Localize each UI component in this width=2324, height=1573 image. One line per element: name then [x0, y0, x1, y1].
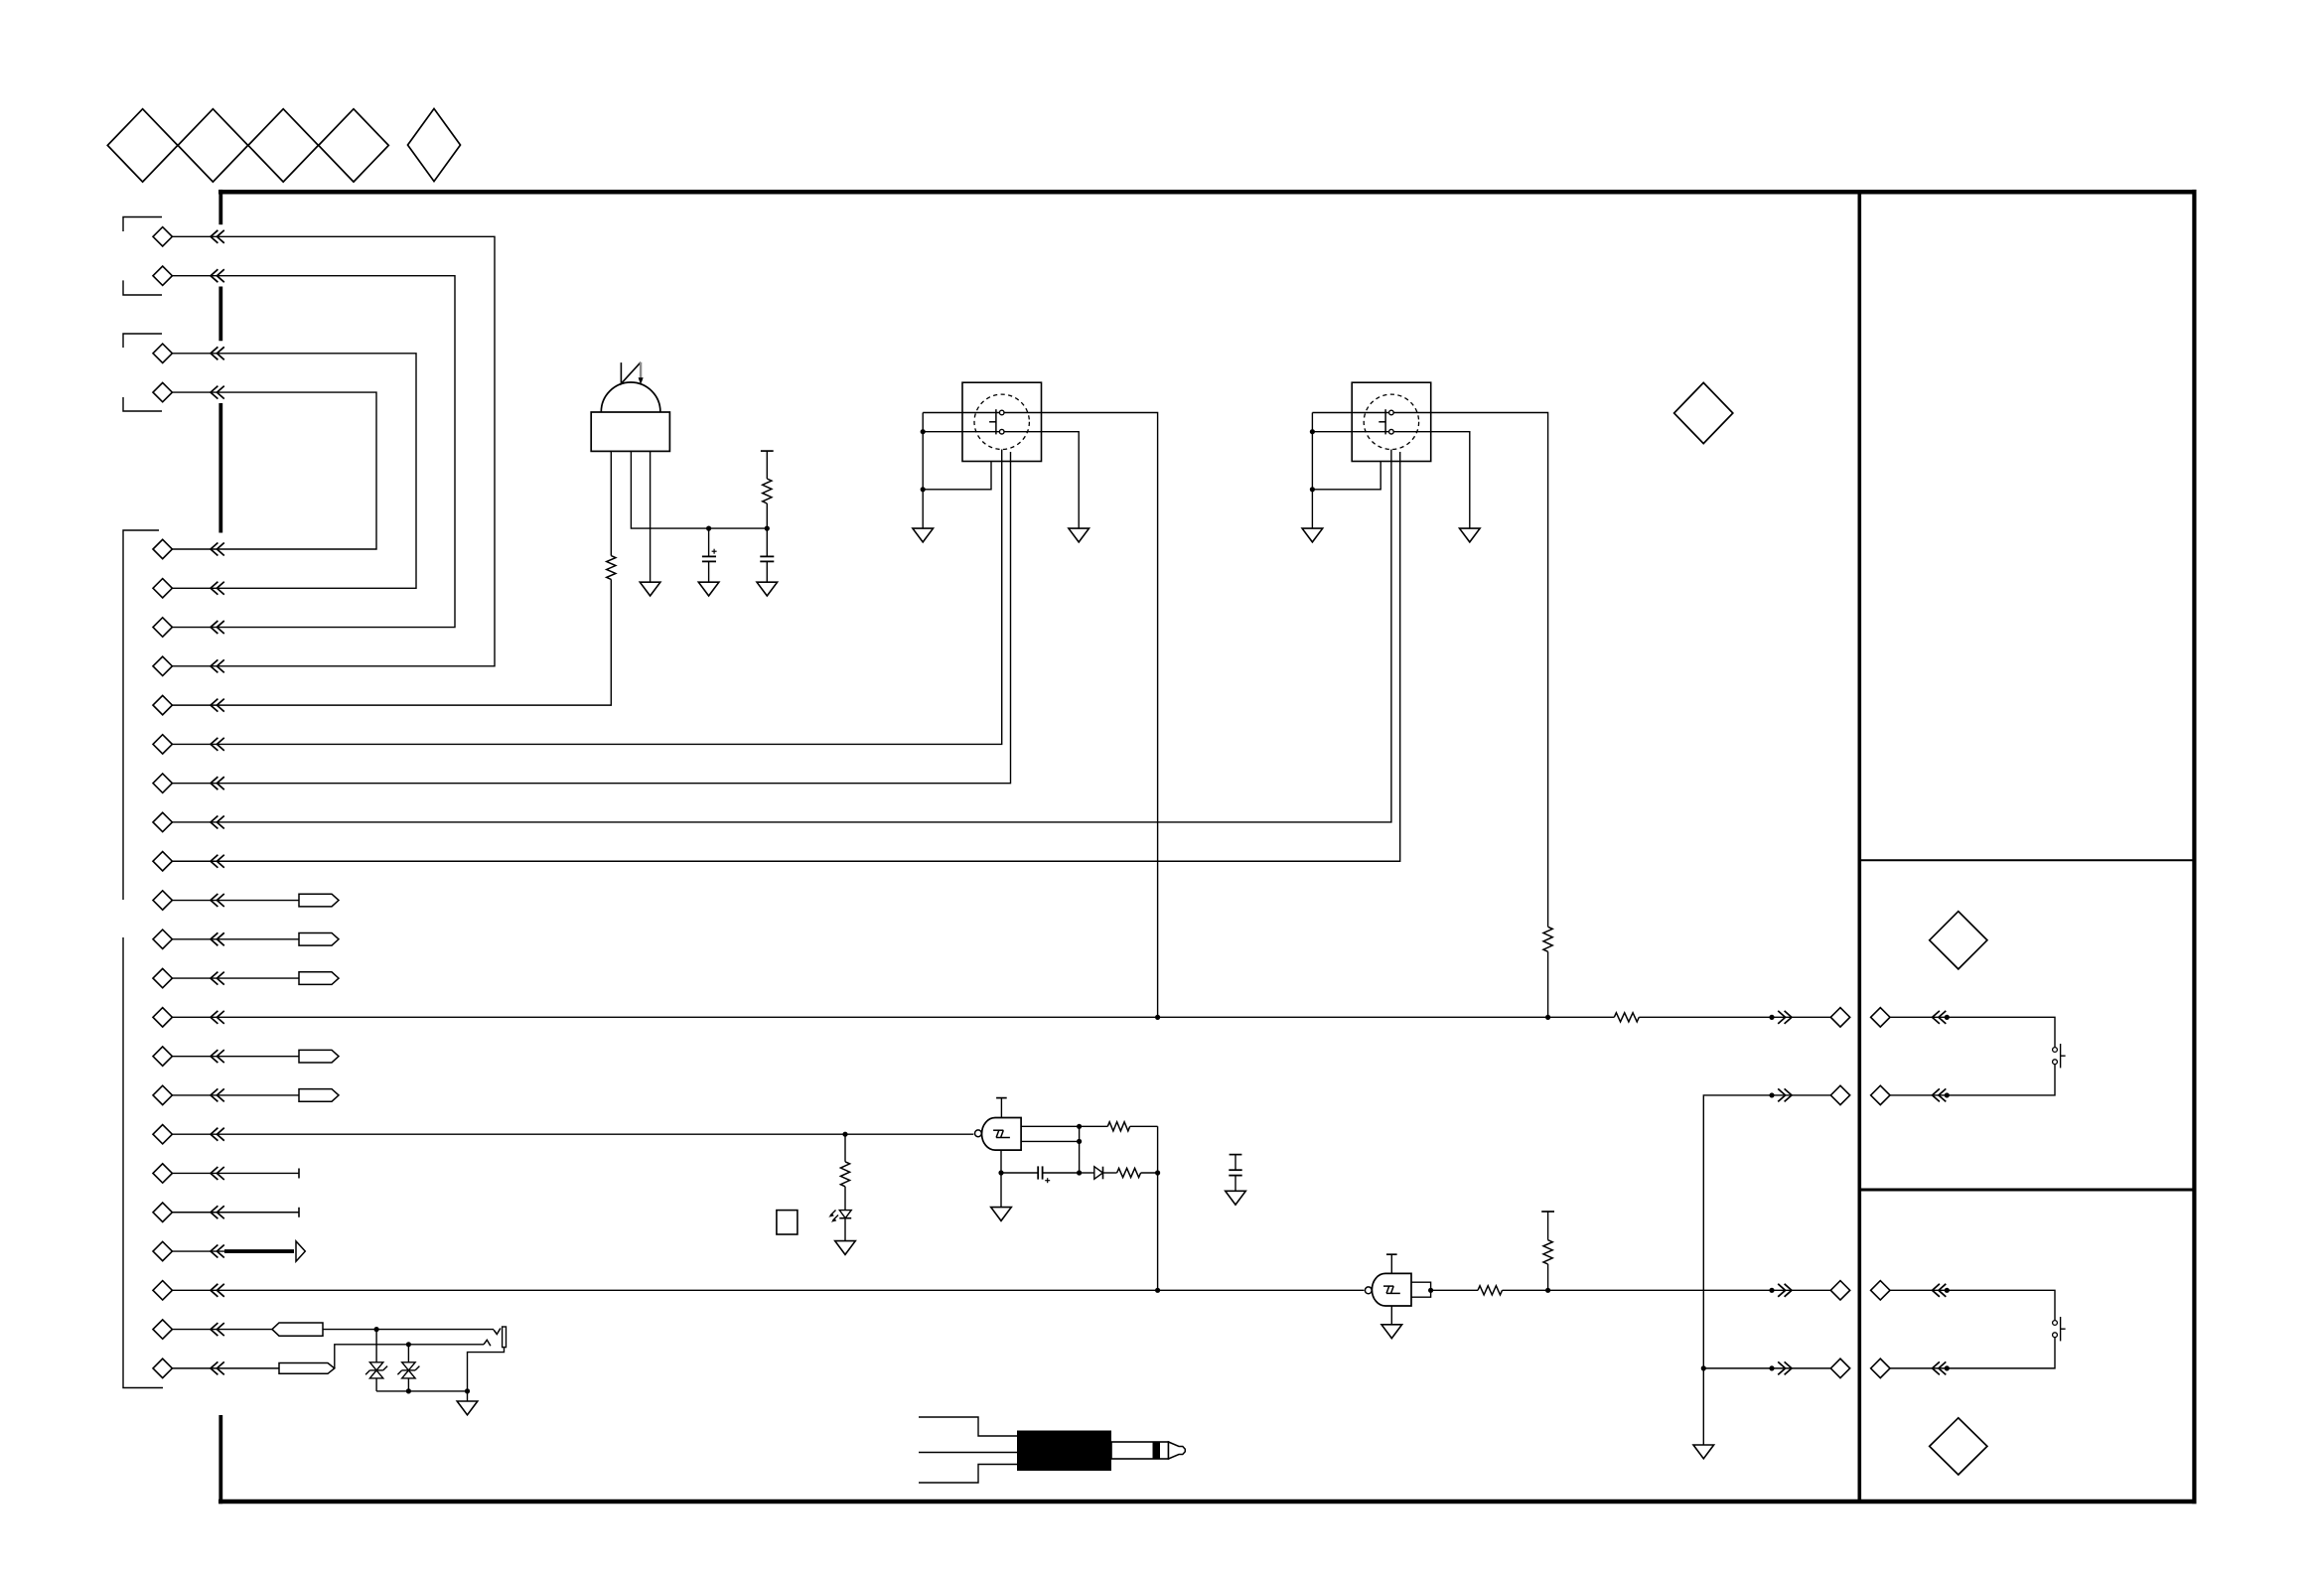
- TVS diode D3: [375, 1330, 377, 1362]
- ornament diamond D1: [107, 109, 178, 182]
- IR beam arrow: [621, 362, 641, 384]
- ground column: [1693, 1445, 1714, 1459]
- junction C1: [706, 526, 711, 531]
- resistor R8: [1478, 1286, 1503, 1295]
- ornament diamond D5: [408, 108, 461, 181]
- connector pin P18 diamond: [153, 1047, 172, 1066]
- switch SW2 bottom pin wire: [1312, 462, 1380, 490]
- signal marker triangle P23: [296, 1241, 305, 1261]
- wire SW1 pin4 to ground: [1004, 432, 1079, 528]
- logo box: [777, 1211, 798, 1234]
- ground U2A: [991, 1208, 1012, 1221]
- junction H4: [1769, 1365, 1774, 1370]
- sheet entry arrow P1: [211, 230, 218, 243]
- sheet entry arrow H4 panel: [1933, 1361, 1940, 1374]
- sheet entry arrow P15: [211, 932, 218, 945]
- sheet entry arrow P18: [211, 1050, 218, 1063]
- connector pin P26 diamond: [153, 1358, 172, 1377]
- gate U2A VCC pin: [1000, 1098, 1002, 1118]
- sheet border left segment 3: [218, 403, 222, 533]
- sheet exit arrow H2: [1778, 1088, 1785, 1101]
- gate U2A input stubs: [1021, 1125, 1080, 1127]
- ground SW2 right: [1460, 528, 1481, 542]
- wire SW2 pin4 to ground: [1393, 432, 1470, 528]
- resistor R4 feedback: [1080, 1125, 1108, 1127]
- junction H4 panel: [1945, 1365, 1950, 1370]
- resistor R1: [607, 556, 616, 580]
- wire P14: [172, 900, 299, 902]
- ground C4: [1226, 1191, 1246, 1205]
- wire row P17 main: [172, 1016, 1614, 1018]
- wire P21 stub: [172, 1172, 299, 1174]
- node diamond main area: [1674, 382, 1733, 443]
- gate U2B body: [1372, 1273, 1411, 1306]
- wire P26 to flag: [172, 1367, 279, 1369]
- right panel divider 2: [1859, 1189, 2194, 1192]
- junction ring wire / D4: [406, 1342, 411, 1347]
- connector pin P6 diamond: [153, 579, 172, 598]
- junction SW1 left a: [921, 429, 926, 434]
- right panel divider 1: [1859, 859, 2194, 861]
- connector pin P16 diamond: [153, 968, 172, 987]
- ground rail: [467, 1391, 469, 1401]
- sheet entry arrow P11: [211, 777, 218, 789]
- wire P16: [172, 977, 299, 979]
- sheet entry arrow P10: [211, 738, 218, 751]
- junction stub a: [1077, 1124, 1082, 1129]
- capacitor C3: [1001, 1172, 1038, 1174]
- wire loop P1-P8: [172, 236, 495, 666]
- connector bracket group 2: [123, 334, 162, 348]
- ground U1-3: [640, 582, 660, 596]
- sheet entry arrow P7: [211, 621, 218, 634]
- jack plug wire 1: [919, 1417, 1017, 1436]
- connector pin P7 diamond: [153, 618, 172, 637]
- switch SW2 contacts: [1389, 410, 1394, 415]
- gate U2B output bubble: [1365, 1287, 1372, 1294]
- ground SW2 left: [1302, 528, 1323, 542]
- resistor R9 pull-up: [1541, 1211, 1554, 1213]
- sheet entry arrow P9: [211, 699, 218, 712]
- sheet exit arrow H4: [1778, 1361, 1785, 1374]
- sheet entry arrow P6: [211, 582, 218, 595]
- connector pin P14 diamond: [153, 891, 172, 910]
- junction ground column / H4: [1701, 1365, 1706, 1370]
- sheet border bottom: [218, 1500, 2197, 1504]
- switch SW2 left pin wires: [1312, 412, 1388, 414]
- wire P9 to R1: [172, 579, 611, 705]
- sheet border right: [2192, 190, 2196, 1503]
- jack plug shaft: [1111, 1442, 1169, 1459]
- wire SW2 pin3 to R6: [1393, 413, 1547, 928]
- net flag P18: [299, 1050, 339, 1063]
- hier pin H4 right: [1871, 1358, 1890, 1377]
- wire SW1 pin3 to feedback column: [1004, 413, 1158, 1018]
- connector bracket group 4: [123, 937, 163, 1388]
- bus wire P23 bold: [224, 1249, 294, 1253]
- sheet entry arrow H3 panel: [1933, 1284, 1940, 1297]
- wire U2B input to R8: [1431, 1289, 1478, 1291]
- junction H3: [1769, 1288, 1774, 1293]
- wire feedback column: [1157, 1126, 1159, 1290]
- wire P10 to switch: [172, 450, 1001, 745]
- hier pin H1 right: [1871, 1008, 1890, 1027]
- connector pin P2 diamond: [153, 266, 172, 285]
- sheet entry arrow P13: [211, 855, 218, 868]
- resistor R7: [1614, 1013, 1639, 1022]
- wire loop P4-P5: [172, 392, 376, 549]
- hier pin H3 left: [1830, 1281, 1849, 1300]
- gate U2A schmitt glyph: [993, 1129, 1003, 1131]
- wire loop P2-P7: [172, 276, 455, 628]
- connector pin P20 diamond: [153, 1125, 172, 1144]
- junction H2: [1769, 1092, 1774, 1097]
- jack sleeve contact bar: [503, 1327, 507, 1348]
- sheet entry arrow P4: [211, 386, 218, 399]
- switch SW2 button circle: [1364, 394, 1418, 449]
- junction row P24 / feedback net: [1155, 1288, 1160, 1293]
- LED D1: [839, 1211, 851, 1218]
- sheet entry arrow P24: [211, 1284, 218, 1297]
- capacitor C2: [766, 528, 768, 556]
- connector pin P11 diamond: [153, 774, 172, 792]
- connector pin P19 diamond: [153, 1085, 172, 1104]
- junction R2/C2: [765, 526, 770, 531]
- junction C3 / D2: [1077, 1170, 1082, 1175]
- capacitor C1 (electrolytic): [708, 528, 710, 556]
- net flag P25 (left pointing): [272, 1323, 323, 1336]
- jack plug body: [1017, 1431, 1111, 1472]
- connector bracket group 3: [123, 530, 159, 900]
- connector pin P10 diamond: [153, 735, 172, 754]
- wire B2 to H4: [1890, 1338, 2055, 1368]
- junction P25 / D3: [374, 1327, 379, 1332]
- wire row P20 to U2A: [172, 1133, 973, 1135]
- gate U2A GND pin: [1000, 1150, 1002, 1208]
- wire P18: [172, 1056, 299, 1058]
- sheet entry arrow P21: [211, 1167, 218, 1180]
- gate U2B input link: [1411, 1282, 1431, 1297]
- wire H1 to button B1: [1890, 1017, 2055, 1047]
- capacitor C4 decoupling: [1230, 1154, 1242, 1156]
- wire row P24 to U2B output: [172, 1289, 1364, 1291]
- sheet entry arrow H1 panel: [1933, 1011, 1940, 1024]
- net flag P14: [299, 894, 339, 907]
- sheet entry arrow P8: [211, 659, 218, 672]
- connector pin P21 diamond: [153, 1164, 172, 1183]
- node diamond bottom panel: [1930, 1418, 1987, 1475]
- connector pin P23 diamond: [153, 1241, 172, 1260]
- resistor R6: [1543, 927, 1552, 951]
- net flag P15: [299, 933, 339, 946]
- push button B1: [2053, 1048, 2058, 1053]
- wire H4 to ground column: [1703, 1367, 1830, 1369]
- connector pin P22 diamond: [153, 1203, 172, 1221]
- ground SW1 left: [913, 528, 934, 542]
- switch SW1 button circle: [974, 394, 1029, 449]
- switch SW1 left pin wires: [923, 412, 999, 414]
- ground C2: [757, 582, 778, 596]
- sheet entry arrow P17: [211, 1011, 218, 1024]
- hier pin H2 left: [1830, 1085, 1849, 1104]
- wire P12 to switch: [172, 450, 1391, 822]
- ornament diamond D4: [319, 109, 389, 182]
- connector pin P8 diamond: [153, 656, 172, 675]
- sheet entry arrow P5: [211, 543, 218, 556]
- ornament diamond D2: [178, 109, 248, 182]
- hier pin H2 right: [1871, 1085, 1890, 1104]
- net flag P16: [299, 972, 339, 985]
- wire H3 to button B2: [1890, 1290, 2055, 1320]
- junction U2A gnd / C3: [998, 1170, 1003, 1175]
- sheet entry arrow P14: [211, 894, 218, 907]
- jack ring contact: [484, 1340, 491, 1346]
- wire LED to ground: [844, 1218, 846, 1241]
- sheet exit arrow H3: [1778, 1284, 1785, 1297]
- pin U1-2 wire: [631, 451, 767, 528]
- junction R8 / R9: [1545, 1288, 1550, 1293]
- sheet entry arrow P22: [211, 1206, 218, 1218]
- junction stub b: [1077, 1139, 1082, 1144]
- sheet entry arrow P2: [211, 269, 218, 282]
- wire TVS ground rail: [376, 1390, 467, 1392]
- sheet border left segment 1: [218, 190, 222, 224]
- wire P26 up to ring contact: [335, 1345, 484, 1368]
- switch SW1 contacts: [999, 410, 1004, 415]
- TVS diode D4: [407, 1345, 409, 1362]
- wire B1 to H2: [1890, 1065, 2055, 1095]
- ground SW1 right: [1069, 528, 1089, 542]
- wire P19: [172, 1094, 299, 1096]
- wire R8 to panel: [1503, 1289, 1831, 1291]
- sheet exit arrow H1: [1778, 1011, 1785, 1024]
- resistor R3 LED series: [844, 1134, 846, 1162]
- junction row P17 / R6: [1545, 1015, 1550, 1020]
- gate U2A output bubble: [975, 1130, 982, 1137]
- terminal tick P22: [298, 1208, 300, 1217]
- hier pin H4 left: [1830, 1358, 1849, 1377]
- jack tip contact: [494, 1329, 501, 1335]
- wire P11 to switch: [172, 452, 1010, 784]
- gate U2A body: [982, 1118, 1022, 1151]
- gate U2B VCC pin: [1390, 1254, 1392, 1273]
- IR receiver U1 dome: [601, 382, 660, 412]
- hierarchy divider vertical: [1858, 192, 1862, 1501]
- wire P13 to switch: [172, 452, 1399, 861]
- resistor R2 pull-up: [761, 450, 774, 452]
- sheet entry arrow P19: [211, 1088, 218, 1101]
- sheet entry arrow P12: [211, 815, 218, 828]
- junction H3 panel: [1945, 1288, 1950, 1293]
- IR receiver U1 body: [591, 412, 669, 451]
- sheet border left segment 2: [218, 287, 222, 342]
- junction R5 / feedback column: [1155, 1170, 1160, 1175]
- node diamond mid panel: [1930, 912, 1987, 969]
- sheet entry arrow P16: [211, 972, 218, 985]
- connector pin P5 diamond: [153, 539, 172, 558]
- jack plug wire 3: [919, 1465, 1017, 1484]
- connector pin P1 diamond: [153, 227, 172, 246]
- connector pin P4 diamond: [153, 382, 172, 401]
- sheet entry arrow P20: [211, 1128, 218, 1141]
- gate U2B GND pin: [1390, 1306, 1392, 1325]
- connector pin P9 diamond: [153, 695, 172, 714]
- wire sleeve to ground rail: [468, 1348, 505, 1391]
- junction row P17 / SW1 column: [1155, 1015, 1160, 1020]
- push button B2: [2053, 1321, 2058, 1326]
- sheet entry arrow P25: [211, 1323, 218, 1336]
- switch SW2 body box: [1352, 382, 1431, 461]
- junction row P20 / R3: [842, 1132, 847, 1137]
- ornament diamond D3: [248, 109, 319, 182]
- junction SW1 left b: [921, 487, 926, 492]
- jack plug wire 2: [919, 1452, 1017, 1454]
- gate U2B schmitt glyph: [1383, 1285, 1393, 1287]
- ground D1: [835, 1241, 856, 1255]
- sheet entry arrow H2 panel: [1933, 1088, 1940, 1101]
- connector pin P25 diamond: [153, 1320, 172, 1339]
- junction H1 panel: [1945, 1015, 1950, 1020]
- diode D2: [1080, 1172, 1094, 1174]
- connector pin P13 diamond: [153, 852, 172, 871]
- wire P25 to flag: [172, 1329, 272, 1331]
- switch SW1 body box: [962, 382, 1042, 461]
- ground C1: [698, 582, 719, 596]
- sheet entry arrow P3: [211, 347, 218, 359]
- wire P15: [172, 938, 299, 940]
- connector pin P15 diamond: [153, 929, 172, 948]
- hier pin H1 left: [1830, 1008, 1849, 1027]
- wire R7 to panel: [1639, 1016, 1830, 1018]
- junction SW2 left b: [1310, 487, 1315, 492]
- resistor R5: [1117, 1168, 1141, 1177]
- junction rail / jack sleeve: [465, 1388, 470, 1393]
- sheet entry arrow P23: [211, 1245, 218, 1258]
- connector pin P3 diamond: [153, 344, 172, 362]
- wire stubs to C3 node: [1079, 1126, 1081, 1173]
- connector pin P17 diamond: [153, 1008, 172, 1027]
- connector bracket group 1: [123, 217, 162, 232]
- wire loop P3-P6: [172, 354, 416, 588]
- net flag P26 (right pointing): [279, 1362, 335, 1373]
- sheet border top: [218, 190, 2197, 195]
- wire P25 to jack tip contact: [323, 1329, 494, 1331]
- junction H1: [1769, 1015, 1774, 1020]
- jack plug tip: [1169, 1442, 1186, 1459]
- hier pin H3 right: [1871, 1281, 1890, 1300]
- net flag P19: [299, 1089, 339, 1102]
- wire P23 thin: [172, 1250, 226, 1252]
- pin U1-1 wire: [610, 451, 612, 555]
- connector pin P24 diamond: [153, 1281, 172, 1300]
- wire H2 to ground column: [1703, 1095, 1830, 1445]
- connector pin P12 diamond: [153, 812, 172, 831]
- junction SW2 left a: [1310, 429, 1315, 434]
- pin U1-3 wire: [650, 451, 652, 582]
- junction rail / D4: [406, 1388, 411, 1393]
- wire R6 to row P17: [1547, 951, 1549, 1017]
- junction H2 panel: [1945, 1092, 1950, 1097]
- sheet border left segment 4: [218, 1415, 222, 1503]
- terminal tick P21: [298, 1168, 300, 1178]
- sheet entry arrow P26: [211, 1361, 218, 1374]
- junction U2B input: [1428, 1288, 1433, 1293]
- jack plug ring band: [1153, 1442, 1161, 1459]
- ground U2B: [1381, 1325, 1402, 1339]
- wire P22 stub: [172, 1212, 299, 1214]
- switch SW1 bottom pin wire: [923, 462, 991, 490]
